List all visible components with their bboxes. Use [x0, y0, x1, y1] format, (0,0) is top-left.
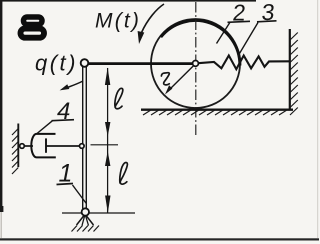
svg-text:M(t): M(t)	[95, 9, 141, 32]
callout label 1 with leader	[57, 160, 87, 204]
radius label rotated 2	[161, 73, 169, 85]
damper 4 piston	[45, 138, 47, 152]
dimension arrow down (bottom)	[105, 196, 110, 214]
ground hatching	[143, 110, 287, 115]
problem number 8	[21, 17, 45, 38]
ground line under disk	[141, 109, 293, 111]
bottom pin of rod	[82, 208, 89, 215]
support hatching	[72, 226, 100, 232]
damper 4 cylinder	[31, 134, 56, 158]
dimension line vertical	[107, 68, 109, 213]
arrow q(t)	[60, 81, 83, 90]
dimension label upper ell	[115, 88, 123, 108]
right wall	[289, 29, 291, 111]
dimension arrow down (mid upper)	[105, 122, 110, 137]
damper 4 rod pin	[80, 144, 85, 149]
callout label 4 with leader	[37, 98, 74, 134]
spring 3	[198, 56, 290, 70]
right wall hatching	[290, 33, 298, 116]
dimension label lower ell	[120, 163, 128, 185]
moment arrow M(t)	[138, 4, 164, 44]
disk 2	[151, 19, 240, 108]
left wall hatching	[12, 129, 18, 175]
callout label 3 with leader	[238, 0, 277, 56]
damper 4 link to wall	[24, 145, 33, 147]
callout label 2 with leader	[217, 0, 251, 43]
dimension arrow up (mid lower)	[105, 151, 110, 166]
pin support at bottom	[77, 215, 94, 226]
disk vertical centerline	[195, 2, 197, 137]
disk center hub	[193, 61, 199, 67]
damper 4 piston rod	[47, 145, 80, 147]
pivot joint at top of rod	[81, 59, 89, 67]
damper 4 wall pin	[20, 144, 25, 149]
baseline at pin level	[62, 212, 135, 214]
radius arrow	[165, 65, 195, 95]
left wall	[17, 124, 19, 168]
dimension arrow up (top)	[105, 68, 110, 86]
svg-text:q(t): q(t)	[35, 51, 78, 76]
extension line at damper level	[91, 144, 119, 146]
disk 2 thick rim arc	[161, 20, 240, 65]
rod 1 double line	[83, 67, 87, 209]
horizontal bar from pivot to disk center	[88, 62, 195, 65]
